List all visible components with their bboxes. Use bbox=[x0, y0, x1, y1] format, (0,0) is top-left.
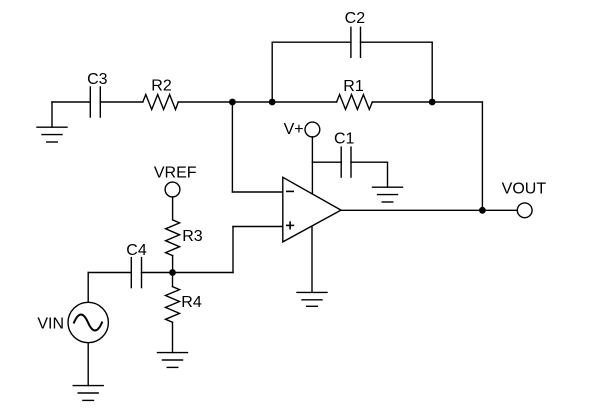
resistor R1 bbox=[337, 78, 373, 110]
wire bbox=[172, 256, 174, 273]
resistor R2 bbox=[143, 78, 179, 110]
ground GND3 (op-amp V-) bbox=[297, 292, 327, 306]
wire bbox=[372, 101, 482, 103]
svg-text:C4: C4 bbox=[126, 242, 147, 259]
wire bbox=[172, 273, 174, 287]
capacitor C3 bbox=[87, 71, 108, 117]
svg-text:R2: R2 bbox=[151, 78, 172, 95]
wire bbox=[88, 272, 131, 274]
wire bbox=[481, 102, 483, 210]
node junction dot (R3/R4 divider) bbox=[169, 269, 176, 276]
wire bbox=[142, 272, 173, 274]
wire bbox=[172, 197, 174, 220]
ground GND5 (VIN) bbox=[73, 386, 103, 401]
wire bbox=[87, 273, 89, 303]
node junction dot (C2 left tap) bbox=[269, 99, 276, 106]
wire bbox=[431, 42, 433, 102]
node junction dot (feedback node) bbox=[429, 99, 436, 106]
wire bbox=[272, 41, 351, 43]
wire bbox=[178, 101, 336, 103]
node junction dot (inverting input tap) bbox=[229, 99, 236, 106]
terminal VREF bbox=[154, 164, 197, 197]
wire bbox=[87, 343, 89, 386]
wire bbox=[351, 161, 388, 163]
svg-text:VREF: VREF bbox=[154, 164, 197, 181]
node junction dot (output node) bbox=[479, 207, 486, 214]
ground GND1 (input left) bbox=[37, 102, 67, 142]
svg-text:C3: C3 bbox=[87, 71, 108, 88]
wire bbox=[100, 101, 143, 103]
resistor R3 bbox=[166, 220, 203, 256]
capacitor C4 bbox=[126, 242, 147, 288]
wire bbox=[312, 161, 341, 163]
resistor R4 bbox=[166, 287, 202, 323]
svg-text:R3: R3 bbox=[182, 228, 203, 245]
wire bbox=[341, 209, 517, 211]
wire bbox=[52, 101, 90, 103]
terminal VOUT bbox=[502, 180, 547, 217]
ground GND4 (R4) bbox=[158, 353, 188, 368]
wire bbox=[231, 102, 233, 192]
wire bbox=[311, 137, 313, 194]
capacitor C2 bbox=[345, 10, 366, 57]
op-amp U1 bbox=[283, 177, 341, 242]
svg-text:VOUT: VOUT bbox=[502, 180, 547, 197]
svg-text:R1: R1 bbox=[343, 78, 364, 95]
wire bbox=[172, 322, 174, 352]
svg-text:C2: C2 bbox=[345, 10, 366, 27]
wire bbox=[271, 42, 273, 102]
wire bbox=[361, 41, 433, 43]
wire bbox=[232, 191, 282, 193]
source VIN bbox=[37, 302, 108, 342]
capacitor C1 bbox=[334, 131, 355, 177]
wire bbox=[173, 272, 234, 274]
svg-text:VIN: VIN bbox=[37, 316, 64, 333]
wire bbox=[311, 226, 313, 292]
wire bbox=[232, 227, 234, 273]
terminal V+ bbox=[284, 121, 320, 138]
wire bbox=[387, 162, 389, 187]
ground GND2 (C1) bbox=[373, 187, 403, 202]
svg-text:C1: C1 bbox=[334, 131, 355, 148]
svg-text:R4: R4 bbox=[181, 294, 202, 311]
wire bbox=[233, 226, 283, 228]
svg-text:V+: V+ bbox=[284, 121, 304, 138]
